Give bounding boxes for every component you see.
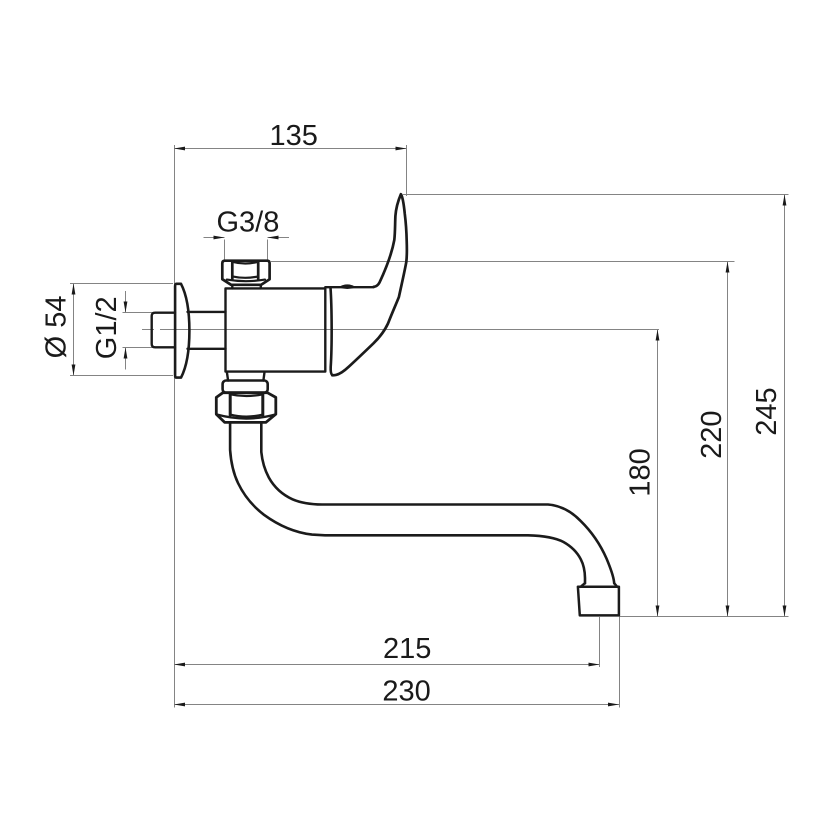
swivel hex nut [216,393,275,423]
dimension G3/8 [204,237,225,239]
cartridge cover edge [331,288,333,376]
dimension Ø54 [73,284,75,376]
Ø54 extension lines [70,283,173,285]
G3/8 extension lines [224,240,226,260]
neck under top nut [232,285,260,288]
spout inner edge [261,422,614,583]
extension line from outlet center (215) [599,617,601,667]
spout outer edge [230,422,585,583]
svg-text:220: 220 [696,411,728,459]
svg-text:230: 230 [382,676,430,708]
handle button [338,284,356,289]
reference line from handle tip (245) [403,194,789,196]
extension line right of 135 [406,145,408,196]
svg-text:Ø 54: Ø 54 [41,295,73,358]
reference line from top nut (220) [271,261,735,263]
svg-text:180: 180 [625,448,657,496]
svg-text:G3/8: G3/8 [216,206,279,238]
handle base ledge [325,286,373,288]
neck between flange and body [188,312,226,349]
faucet body [226,288,326,371]
dimension 245 [784,195,786,617]
dimension 215 [174,664,600,666]
centerline of inlet pipe (axis) [142,329,659,331]
svg-text:215: 215 [383,633,431,665]
outlet aerator [578,587,619,616]
top hex nut G3/8 [222,261,269,285]
dimension line 135 [174,148,406,150]
extension line from outlet edge (230) [619,616,621,708]
svg-text:135: 135 [270,120,318,152]
wall plane extension line [174,145,176,708]
bottom reference line from outlet (180/220/245) [620,616,789,618]
collar under body [227,373,264,381]
outlet flares [581,583,618,587]
dimension 180 [657,330,659,617]
svg-text:G1/2: G1/2 [91,296,123,359]
lever handle [332,194,407,375]
G1/2 extension lines [123,312,154,314]
wall flange Ø54 [175,284,189,378]
inlet pipe stub G1/2 [152,313,175,348]
dimension 230 [174,704,619,706]
retaining ring [223,381,268,393]
dimension 220 [727,262,729,617]
dimension G1/2 [125,291,127,313]
svg-text:245: 245 [751,387,783,435]
